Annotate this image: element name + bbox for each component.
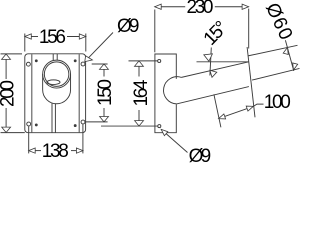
svg-text:200: 200: [0, 80, 19, 107]
angle 15 arrow upper: [204, 54, 213, 61]
leader arrow bottom O9: [159, 127, 167, 135]
left fold line: [31, 54, 33, 132]
tube outer rim front view: [43, 60, 71, 88]
slot line below right: [54, 104, 56, 133]
tube end face / dim 100 extension right: [247, 47, 255, 117]
svg-text:Ø9: Ø9: [117, 16, 140, 37]
dim 230 extension right: [248, 9, 250, 49]
tube bottom edge side view: [177, 87, 249, 104]
dim 156 line: [25, 36, 38, 38]
dim 230 extension left: [154, 10, 156, 53]
tube rounded cap side view: [164, 77, 182, 104]
side plate hole bottom: [158, 125, 161, 128]
dim 138 arrow right: [76, 148, 83, 153]
dim 164 extension top: [129, 60, 158, 62]
svg-text:156: 156: [39, 27, 66, 48]
dim 150 line: [103, 64, 105, 76]
dim O60 arrow lower: [291, 63, 298, 71]
dim 100 arrow left: [218, 114, 226, 121]
dim 164 arrow top: [135, 61, 144, 66]
tube body U silhouette front view: [43, 74, 71, 104]
dim 150 extension bottom: [85, 121, 107, 123]
angle 15 horizontal reference: [197, 61, 249, 63]
tube inner rim front view: [44, 62, 69, 87]
dim 164 arrow bottom: [135, 121, 144, 126]
dim 200 extension bottom: [1, 132, 25, 134]
svg-text:230: 230: [187, 0, 214, 18]
dim 100 extension left: [214, 94, 221, 127]
hole bottom-right: [81, 120, 85, 124]
dim 100 arrow right: [246, 104, 254, 111]
tube inner bottom ellipse front view: [47, 80, 60, 85]
dim 156 arrow right: [79, 34, 86, 39]
side view plate outline: [155, 54, 176, 133]
dim 164 extension bottom: [101, 125, 158, 127]
dim 138 arrow left: [29, 148, 36, 153]
front view plate outline: [25, 54, 86, 133]
slot line above circle left: [52, 54, 54, 61]
wall screw dot top-right: [74, 60, 76, 62]
dim O60 extension upper: [248, 45, 298, 56]
wall screw dot bottom-left: [35, 124, 37, 126]
leader line top O9: [85, 33, 113, 62]
angle 15 dimension line: [210, 48, 211, 76]
hole top-left: [26, 62, 30, 66]
dim 156 extension right: [85, 34, 87, 52]
dim 150 arrow top: [100, 64, 109, 69]
right fold line: [78, 54, 80, 132]
svg-text:164: 164: [131, 79, 152, 106]
wall screw dot top-left: [35, 60, 37, 62]
leader line bottom O9: [162, 130, 188, 153]
dim O60 extension lower: [252, 68, 300, 80]
dim 200 extension top: [1, 53, 23, 55]
dim 230 arrow right: [242, 4, 249, 9]
svg-text:Ø9: Ø9: [189, 146, 212, 164]
dim O60 arrow upper: [283, 47, 290, 55]
dim 150 arrow bottom: [100, 117, 109, 122]
dim 230 line: [155, 6, 186, 8]
svg-text:15°: 15°: [200, 17, 232, 50]
dim 138 extension left: [28, 126, 30, 153]
dim 150 extension top: [92, 63, 108, 65]
dim 200 arrow top: [2, 54, 11, 59]
angle 15 arrow lower: [210, 70, 217, 77]
dim 100 line: [219, 106, 254, 118]
dim 138 line: [29, 150, 41, 152]
wall screw dot bottom-right: [74, 125, 76, 127]
side plate hole top: [158, 59, 161, 62]
dim O60 line: [285, 40, 293, 71]
dim 164 line: [138, 61, 140, 77]
tube top edge side view: [181, 62, 248, 78]
dim 138 extension right: [82, 124, 84, 153]
dim 156 extension left: [24, 34, 26, 52]
svg-text:138: 138: [42, 141, 69, 162]
slot line above circle right: [56, 54, 58, 60]
dim 200 arrow bottom: [2, 127, 11, 132]
dim 156 arrow left: [25, 34, 32, 39]
dim 200 line: [5, 54, 7, 79]
dim 230 arrow left: [155, 4, 162, 9]
leader arrow top O9: [85, 56, 93, 62]
dim 100 leader to text: [253, 104, 263, 106]
svg-text:100: 100: [264, 92, 291, 113]
svg-text:Ø60: Ø60: [261, 0, 296, 43]
hole bottom-left: [27, 122, 31, 126]
slot line below left: [51, 103, 53, 133]
svg-text:150: 150: [95, 79, 116, 106]
hole top-right: [81, 62, 85, 66]
